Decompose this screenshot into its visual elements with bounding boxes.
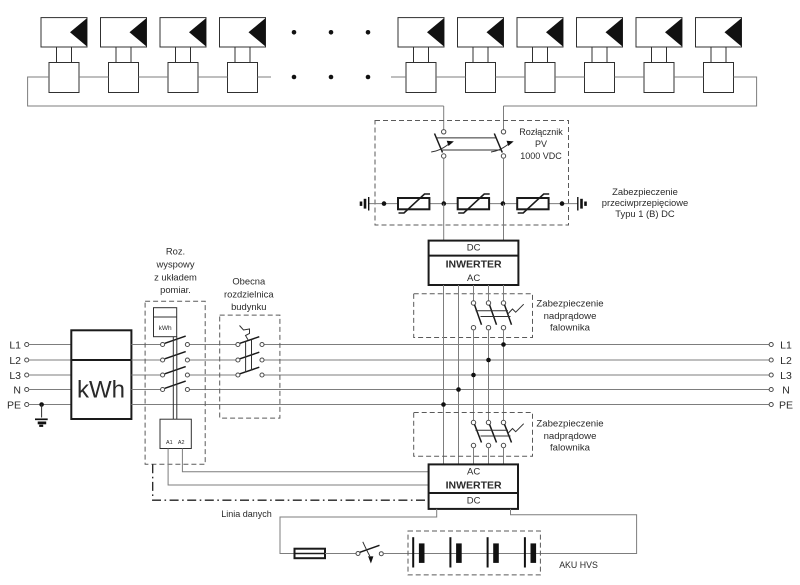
- breaker F1 pole 2 blade: [490, 305, 497, 325]
- svg-text:L1: L1: [780, 340, 792, 352]
- wire pole1 to SPD bus: [443, 158, 445, 203]
- svg-text:falownika: falownika: [550, 323, 591, 334]
- svg-text:z układem: z układem: [154, 272, 197, 283]
- wire inverter2 DC minus to fuse: [280, 509, 437, 554]
- inverter U2 box: [429, 464, 518, 509]
- wire PV2 leads: [116, 47, 131, 63]
- svg-text:Rozłącznik: Rozłącznik: [519, 127, 563, 137]
- wire coil A1 to inverter2: [168, 449, 429, 486]
- junction box J6: [466, 63, 496, 93]
- junction box J7: [525, 63, 555, 93]
- junction box J10: [704, 63, 734, 93]
- breaker F1 pole 1 terminals: [471, 301, 475, 330]
- disconnector S1 pole 1 blade: [435, 134, 443, 153]
- building breaker F3 pole L2 terminals: [236, 358, 264, 362]
- junction box J9: [644, 63, 674, 93]
- svg-text:Zabezpieczenie: Zabezpieczenie: [536, 418, 603, 429]
- PV module PV3: [160, 18, 206, 47]
- wire pole2 to SPD bus: [503, 158, 505, 203]
- wire inverter2 DC plus to battery: [511, 509, 637, 554]
- svg-text:rozdzielnica: rozdzielnica: [224, 288, 274, 299]
- wire building breaker to right terminals: [264, 345, 769, 376]
- island switch Q1 pole L3 blade: [165, 367, 186, 374]
- island switch Q1 pole N terminals: [161, 387, 190, 391]
- battery cell B4: [525, 537, 536, 567]
- building breaker F3 pole L1 terminals: [236, 342, 264, 346]
- PV module PV4: [220, 18, 266, 47]
- svg-text:N: N: [13, 385, 21, 397]
- junction box J3: [168, 63, 198, 93]
- breaker F2 pole 2 blade: [490, 424, 497, 442]
- building breaker F3 trip hook: [240, 326, 250, 340]
- island switch Q1 pole N blade: [165, 381, 186, 388]
- breaker F2 trip hook: [508, 424, 524, 434]
- dashed box: lower inverter AC protection: [414, 413, 533, 457]
- wire kWh meter to island switch: [131, 345, 769, 405]
- wire PV10 leads: [711, 47, 726, 63]
- wire PV3 leads: [176, 47, 191, 63]
- svg-text:Zabezpieczenie: Zabezpieczenie: [612, 186, 678, 197]
- svg-text:Typu 1 (B) DC: Typu 1 (B) DC: [615, 208, 675, 219]
- svg-text:AC: AC: [467, 467, 480, 478]
- node PE earth junction: [39, 402, 44, 407]
- wire switch to battery: [383, 553, 413, 555]
- wire breaker F1 outputs down to AC bus: [474, 330, 504, 420]
- island switch Q1 pole L1 terminals: [161, 342, 190, 346]
- wire string series links: [79, 76, 704, 78]
- svg-text:Linia danych: Linia danych: [221, 509, 272, 519]
- svg-text:AC: AC: [467, 273, 480, 284]
- island switch Q1 linkage bars: [173, 337, 177, 420]
- wire string negative return (left): [28, 77, 444, 106]
- wire battery internal bus: [413, 553, 536, 555]
- dashed box: Obecna rozdzielnica budynku: [220, 315, 280, 418]
- PV module PV8: [577, 18, 623, 47]
- PV module PV5: [398, 18, 444, 47]
- svg-text:L3: L3: [780, 370, 792, 382]
- svg-text:pomiar.: pomiar.: [160, 284, 191, 295]
- junction box J5: [406, 63, 436, 93]
- building breaker F3 pole L3 blade: [240, 367, 259, 374]
- svg-text:przeciwprzepięciowe: przeciwprzepięciowe: [602, 197, 689, 208]
- label Zabezpieczenie nadpradowe falownika (lower): [536, 418, 603, 453]
- svg-text:INWERTER: INWERTER: [446, 258, 502, 270]
- wire stub after ellipsis: [391, 76, 406, 78]
- wire data line (dash-dot): [153, 464, 429, 500]
- svg-text:PE: PE: [779, 400, 793, 412]
- label coil terminals A1 A2: [166, 440, 184, 446]
- labels right L1 L2 L3 N PE: [779, 340, 793, 412]
- svg-text:falownika: falownika: [550, 442, 591, 453]
- wire PV8 leads: [592, 47, 607, 63]
- svg-text:nadprądowe: nadprądowe: [544, 311, 597, 322]
- wire PV9 leads: [652, 47, 667, 63]
- svg-text:Obecna: Obecna: [232, 275, 266, 286]
- label Zabezpieczenie przeciwprzepieciowe Typu 1 (B) DC: [602, 186, 689, 219]
- breaker F2 pole 3 terminals: [501, 420, 505, 447]
- right grid terminals L1 L2 L3 N PE: [769, 342, 773, 406]
- wire DC string to inverter1 (pole2): [503, 204, 505, 241]
- building breaker F3 pole L3 terminals: [236, 373, 264, 377]
- building breaker F3 pole L1 blade: [240, 337, 259, 344]
- varistor RV2: [458, 194, 490, 213]
- island switch Q1 pole L1 blade: [165, 336, 186, 343]
- battery cell B2: [450, 537, 461, 567]
- wire fuse to battery switch: [325, 553, 356, 555]
- battery cell B3: [488, 537, 499, 567]
- varistor RV3: [517, 194, 549, 213]
- label Obecna rozdzielnica budynku: [224, 275, 274, 312]
- svg-text:1000 VDC: 1000 VDC: [520, 151, 562, 161]
- breaker F1 pole 2 terminals: [486, 301, 490, 330]
- wire PV6 leads: [473, 47, 488, 63]
- dashed box: Roz. wyspowy enclosure: [145, 301, 205, 464]
- fuse F4: [295, 549, 326, 559]
- svg-text:DC: DC: [467, 242, 481, 253]
- svg-text:PV: PV: [535, 139, 547, 149]
- svg-text:L3: L3: [9, 370, 21, 382]
- ground (left SPD earth): [361, 197, 369, 211]
- node bus junction dots (inverter feed): [441, 342, 506, 407]
- breaker F1 linkage bars: [476, 311, 511, 317]
- svg-text:PE: PE: [7, 400, 21, 412]
- wire PV5 leads: [414, 47, 429, 63]
- svg-text:AKU HVS: AKU HVS: [559, 560, 598, 570]
- island switch Q1 pole L2 blade: [165, 352, 186, 359]
- svg-text:kWh: kWh: [77, 377, 125, 404]
- ground (right SPD earth): [578, 197, 586, 211]
- wire PV1 leads: [57, 47, 72, 63]
- breaker F1 pole 3 blade: [505, 305, 512, 325]
- wire coil A2 to inverter2: [182, 449, 428, 472]
- wire left terminals to kWh meter: [29, 345, 72, 405]
- left grid terminals L1 L2 L3 N PE: [25, 342, 29, 406]
- disconnector S1 pole 2 blade: [494, 134, 502, 153]
- svg-text:A1: A1: [166, 440, 173, 446]
- dashed box: battery AKU HVS: [408, 531, 540, 575]
- dashed box: upper inverter AC protection: [414, 294, 533, 338]
- PV module PV9: [636, 18, 682, 47]
- disconnector S1 pole 1 terminals: [442, 130, 446, 159]
- building breaker F3 pole L2 blade: [240, 352, 259, 359]
- inverter U1 box: [429, 241, 519, 285]
- wire string positive return (right): [504, 77, 757, 106]
- junction box J8: [585, 63, 615, 93]
- breaker F1 trip hook: [508, 304, 524, 314]
- wire DC string to inverter1 (pole1): [443, 204, 445, 241]
- PV module PV1: [41, 18, 87, 47]
- svg-text:INWERTER: INWERTER: [446, 480, 502, 492]
- varistor RV1: [398, 194, 430, 213]
- PV module PV6: [458, 18, 504, 47]
- svg-text:L1: L1: [9, 340, 21, 352]
- svg-text:wyspowy: wyspowy: [155, 259, 194, 270]
- label Zabezpieczenie nadpradowe falownika (upper): [536, 298, 603, 333]
- svg-text:A2: A2: [178, 440, 185, 446]
- battery switch Q2 trip arrow: [363, 542, 374, 564]
- wire drop to disconnector pole 2: [503, 106, 505, 130]
- svg-text:L2: L2: [9, 355, 21, 367]
- junction box J1: [49, 63, 79, 93]
- island switch Q1 pole L2 terminals: [161, 358, 190, 362]
- label Rozlacznik PV 1000 VDC: [519, 127, 563, 161]
- wire island switch to building breaker: [189, 345, 769, 390]
- battery cell B1: [413, 537, 424, 567]
- wire drop to disconnector pole 1: [443, 106, 445, 130]
- svg-text:DC: DC: [467, 496, 481, 507]
- junction box J2: [109, 63, 139, 93]
- breaker F2 linkage bars: [476, 430, 511, 436]
- wire inverter1 N conductor (passes through): [458, 285, 460, 464]
- ellipsis dots bottom row: [292, 75, 371, 80]
- sub-meter kWh box: [154, 308, 177, 337]
- PV module PV7: [517, 18, 563, 47]
- disconnector S1 pole 2 actuating arrow: [491, 141, 514, 152]
- PV module PV2: [101, 18, 147, 47]
- ground (PE earth): [35, 419, 48, 426]
- labels left L1 L2 L3 N PE: [7, 340, 21, 412]
- battery switch Q2 blade: [360, 545, 380, 552]
- contactor coil K1 box: [160, 419, 191, 448]
- wire inverter1 AC outputs to breaker F1: [474, 285, 504, 301]
- PV module PV10: [696, 18, 742, 47]
- label Roz. wyspowy z ukladem pomiar.: [154, 246, 197, 296]
- wire stub before ellipsis: [258, 76, 272, 78]
- disconnector S1 pole 2 terminals: [501, 130, 505, 159]
- disconnector S1 linkage bars: [437, 138, 501, 150]
- breaker F2 pole 2 terminals: [486, 420, 490, 447]
- breaker F1 pole 1 blade: [475, 305, 482, 325]
- disconnector S1 pole 1 actuating arrow: [431, 141, 454, 152]
- battery switch Q2 terminals: [356, 552, 383, 556]
- kWh meter M1 box: [71, 330, 131, 419]
- svg-text:N: N: [782, 385, 790, 397]
- wire PV7 leads: [533, 47, 548, 63]
- svg-text:Zabezpieczenie: Zabezpieczenie: [536, 298, 603, 309]
- island switch Q1 pole L3 terminals: [161, 373, 190, 377]
- wire breaker F2 outputs to inverter2: [474, 448, 504, 465]
- svg-text:budynku: budynku: [231, 301, 266, 312]
- svg-text:Roz.: Roz.: [166, 246, 185, 257]
- junction box J4: [228, 63, 258, 93]
- wire inverter1 PE conductor (passes through): [443, 285, 445, 464]
- ellipsis dots top row: [292, 30, 371, 35]
- breaker F1 pole 3 terminals: [501, 301, 505, 330]
- breaker F2 pole 1 terminals: [471, 420, 475, 447]
- node SPD junction dots: [382, 201, 565, 206]
- building breaker F3 linkage bars: [246, 340, 252, 373]
- svg-text:kWh: kWh: [159, 325, 172, 332]
- svg-text:L2: L2: [780, 355, 792, 367]
- breaker F2 pole 1 blade: [475, 424, 482, 442]
- breaker F2 pole 3 blade: [505, 424, 512, 442]
- wire PE to earth: [41, 405, 43, 418]
- dashed box: Rozlacznik PV + SPD enclosure: [375, 121, 569, 226]
- svg-text:nadprądowe: nadprądowe: [544, 431, 597, 442]
- wire PV4 leads: [235, 47, 250, 63]
- wire SPD horizontal bus: [369, 203, 578, 205]
